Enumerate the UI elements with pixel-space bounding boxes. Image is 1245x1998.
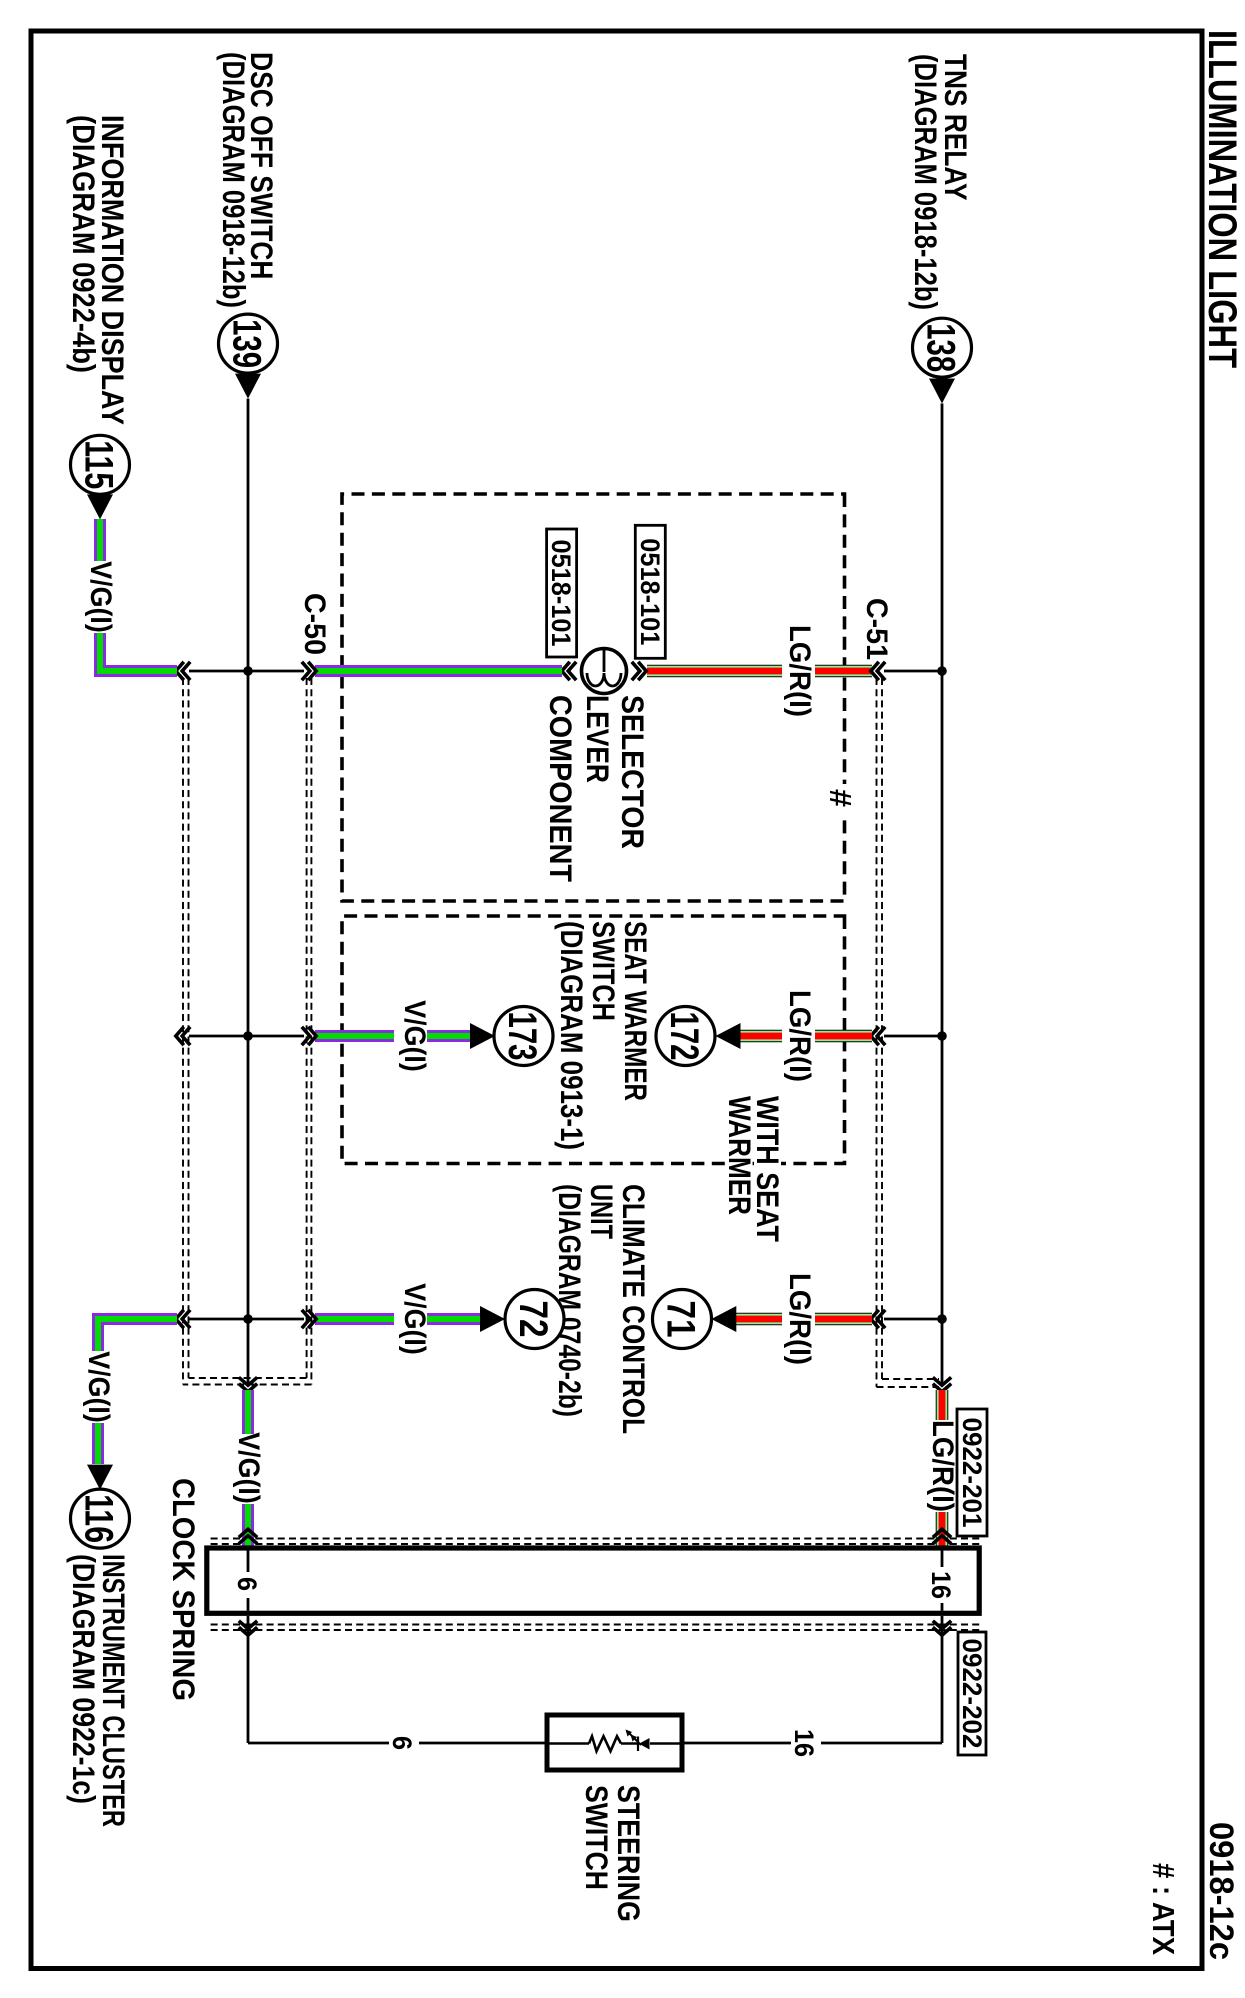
connector circle 173 seat warmer switch	[494, 1007, 553, 1066]
SEAT WARMER SWITCH label	[554, 921, 654, 1150]
connector circle 172 seat warmer switch	[656, 1007, 715, 1066]
chevron lower dashed line selector wire	[176, 662, 190, 680]
svg-text:CLIMATE CONTROL: CLIMATE CONTROL	[616, 1184, 652, 1434]
SELECTOR LEVER COMPONENT label	[543, 695, 651, 882]
svg-text:ILLUMINATION LIGHT: ILLUMINATION LIGHT	[1200, 30, 1244, 368]
label box 0922-201	[957, 1409, 987, 1536]
svg-text:173: 173	[500, 1012, 544, 1061]
C-51 in-line connector dashed line (outer)	[877, 678, 940, 1387]
svg-text:115: 115	[77, 440, 121, 489]
svg-text:SEAT WARMER: SEAT WARMER	[618, 921, 654, 1101]
chevron C-50 climate wire	[302, 1310, 316, 1328]
svg-text:V/G(I): V/G(I)	[82, 1351, 115, 1423]
connector C-50 chevron	[302, 662, 316, 680]
svg-text:V/G(I): V/G(I)	[398, 1000, 431, 1072]
node TNS bus / climate branch	[937, 1314, 947, 1324]
pin number 6 clock spring	[232, 1572, 265, 1598]
wire V/G(I) bulb to C-50	[315, 665, 562, 677]
connector circle 116 instrument cluster	[71, 1489, 130, 1548]
INFORMATION DISPLAY label	[66, 115, 131, 425]
chevron upper dashed line climate wire	[871, 1310, 885, 1328]
svg-text:(DIAGRAM 0913-1): (DIAGRAM 0913-1)	[554, 921, 590, 1150]
svg-text:CLOCK SPRING: CLOCK SPRING	[166, 1478, 202, 1701]
wire V/G(I) to information display	[100, 633, 177, 671]
svg-text:C-51: C-51	[860, 598, 893, 660]
INSTRUMENT CLUSTER label	[66, 1554, 132, 1827]
node DSC bus / climate wire	[243, 1314, 253, 1324]
svg-text:6: 6	[232, 1577, 262, 1591]
STEERING SWITCH label	[579, 1785, 647, 1922]
wire stub TNS bus to seat warmer chevron	[884, 1035, 942, 1038]
svg-text:LEVER: LEVER	[580, 695, 616, 783]
label C-50	[298, 593, 331, 655]
svg-text:0518-101: 0518-101	[546, 540, 576, 647]
svg-text:C-50: C-50	[298, 593, 331, 655]
node DSC bus / selector wire	[243, 666, 253, 676]
pin label 16 steering	[789, 1727, 821, 1759]
wire thin seat warmer across connector region	[189, 1035, 304, 1038]
C-50 in-line connector dashed line (bottom outer)	[182, 678, 184, 1385]
label box 0518-101 lower	[546, 529, 577, 657]
node TNS bus / selector branch	[937, 666, 947, 676]
chevron lower dashed line seat warmer wire	[176, 1027, 190, 1045]
wire through clock spring pin 6	[247, 1551, 250, 1611]
svg-text:0922-201: 0922-201	[957, 1418, 987, 1528]
selector lever component dashed box	[342, 494, 845, 901]
arrow into wire from 115	[87, 494, 113, 519]
WITH SEAT WARMER label	[722, 1094, 786, 1244]
steering switch box	[547, 1715, 682, 1770]
svg-text:WARMER: WARMER	[722, 1096, 758, 1215]
wire LG/R(I) to clock spring pin 16	[936, 1390, 949, 1546]
chevron 0922-202 pin 6	[239, 1621, 257, 1635]
svg-text:LG/R(I): LG/R(I)	[783, 625, 816, 717]
arrow into 71	[711, 1306, 736, 1332]
svg-text:(DIAGRAM 0918-12b): (DIAGRAM 0918-12b)	[216, 52, 252, 308]
svg-text:138: 138	[919, 323, 963, 372]
wire TNS bus y=303	[941, 404, 944, 1385]
chevron lower dashed line climate wire	[176, 1310, 190, 1328]
C-50 in-line connector dashed line (bottom inner)	[188, 678, 190, 1378]
CLIMATE CONTROL UNIT label	[552, 1184, 652, 1434]
connector 0922-201 dashed lines	[207, 1539, 979, 1545]
connector circle 138 TNS relay	[913, 318, 972, 377]
TNS RELAY label	[908, 54, 974, 310]
svg-text:116: 116	[77, 1494, 121, 1543]
label box 0922-202	[957, 1632, 987, 1755]
svg-text:# : ATX: # : ATX	[1146, 1863, 1181, 1955]
ATX note marker # on selector box edge	[823, 784, 858, 814]
arrow from 173 into wire	[470, 1023, 495, 1049]
connector 0922-202 dashed lines	[207, 1625, 979, 1631]
chevron C-50 seat warmer wire	[302, 1027, 316, 1045]
svg-text:71: 71	[659, 1301, 703, 1338]
wire V/G(I) to instrument cluster	[98, 1319, 177, 1464]
clock spring box	[207, 1548, 979, 1613]
svg-text:(DIAGRAM 0922-4b): (DIAGRAM 0922-4b)	[66, 115, 102, 373]
wire clock spring pin6 to steering switch	[248, 1616, 547, 1743]
svg-text:SWITCH: SWITCH	[586, 921, 622, 1021]
wire label LG/R(I) seat warmer	[782, 990, 816, 1082]
wire V/G(I) climate branch	[315, 1313, 480, 1325]
connector circle 71 climate control	[653, 1290, 712, 1349]
wire LG/R(I) climate branch	[735, 1313, 872, 1326]
resistor of steering switch	[589, 1736, 621, 1751]
svg-text:LG/R(I): LG/R(I)	[783, 1273, 816, 1365]
svg-text:LG/R(I): LG/R(I)	[926, 1420, 959, 1512]
wire V/G(I) seat warmer branch	[315, 1030, 470, 1042]
pin label 6 steering	[387, 1730, 419, 1756]
node DSC bus / seat warmer wire	[243, 1031, 253, 1041]
wire label V/G(I) instrument cluster	[82, 1351, 115, 1423]
svg-text:16: 16	[789, 1729, 819, 1757]
CLOCK SPRING label	[166, 1478, 202, 1701]
DSC OFF SWITCH label	[216, 52, 280, 308]
wire stub TNS bus to climate chevron	[884, 1318, 942, 1321]
arrow from 139	[235, 374, 261, 399]
svg-text:139: 139	[225, 319, 269, 368]
wire label LG/R(I) clock spring	[926, 1420, 959, 1512]
LED of steering switch	[626, 1730, 650, 1752]
label C-51	[860, 598, 893, 660]
svg-text:SELECTOR: SELECTOR	[615, 695, 651, 849]
arrow into 172	[716, 1023, 741, 1049]
svg-text:0922-202: 0922-202	[957, 1639, 987, 1749]
wire label LG/R(I) climate	[782, 1273, 816, 1365]
seat warmer switch dashed box	[342, 916, 845, 1164]
svg-text:72: 72	[511, 1301, 555, 1338]
label box 0518-101 upper	[635, 525, 665, 658]
svg-text:(DIAGRAM 0918-12b): (DIAGRAM 0918-12b)	[908, 54, 944, 310]
wire label V/G(I) information display	[84, 561, 117, 633]
svg-text:LG/R(I): LG/R(I)	[783, 990, 816, 1082]
chevron 0922-201 pin 6	[239, 1529, 257, 1543]
wire stub TNS bus to C-51	[884, 670, 942, 673]
svg-text:UNIT: UNIT	[584, 1184, 620, 1239]
diagram number 0918-12c	[1202, 1822, 1240, 1960]
connector 0518-101 chevron below bulb	[562, 662, 576, 680]
chevron DSC bus exit at dashed loop	[239, 1377, 257, 1391]
C-51 in-line connector dashed line (inner)	[882, 678, 939, 1379]
wire label V/G(I) climate	[394, 1283, 431, 1355]
pin number 16 clock spring	[926, 1567, 959, 1603]
connector C-51 chevron	[871, 662, 885, 680]
wire LG/R(I) seat warmer branch	[740, 1030, 872, 1043]
svg-text:0918-12c: 0918-12c	[1202, 1822, 1240, 1960]
wire V/G(I) into circle 115	[94, 519, 106, 561]
wire DSC bus y=997	[247, 399, 250, 1385]
chevron 0922-201 pin 16	[933, 1529, 951, 1543]
svg-text:SWITCH: SWITCH	[579, 1785, 615, 1890]
wire inside steering switch	[547, 1742, 682, 1744]
wire thin across C-50 connector region	[189, 670, 304, 673]
arrow from 138	[929, 379, 955, 404]
C-50 in-line connector dashed line (top inner)	[189, 678, 307, 1378]
svg-text:V/G(I): V/G(I)	[232, 1432, 265, 1504]
svg-text:6: 6	[387, 1736, 417, 1750]
connector circle 139 DSC off switch	[219, 314, 278, 373]
wire LG/R(I) selector branch	[647, 665, 872, 678]
chevron 0922-202 pin 16	[933, 1621, 951, 1635]
svg-text:STEERING: STEERING	[611, 1785, 647, 1922]
connector 0518-101 chevron above bulb	[632, 662, 646, 680]
title ILLUMINATION LIGHT	[1200, 30, 1244, 368]
chevron TNS bus exit at dashed loop	[933, 1377, 951, 1391]
illumination bulb of selector lever	[582, 649, 627, 694]
C-50 in-line connector dashed line (top outer)	[183, 678, 311, 1385]
wire through clock spring pin 16	[941, 1551, 944, 1611]
wire label LG/R(I) selector	[782, 625, 816, 717]
svg-text:16: 16	[926, 1571, 956, 1599]
svg-text:V/G(I): V/G(I)	[398, 1283, 431, 1355]
svg-text:0518-101: 0518-101	[635, 538, 665, 645]
connector circle 72 climate control	[505, 1290, 564, 1349]
svg-text:V/G(I): V/G(I)	[84, 561, 117, 633]
svg-text:(DIAGRAM 0922-1c): (DIAGRAM 0922-1c)	[66, 1554, 102, 1804]
wire V/G(I) to clock spring pin 6	[242, 1390, 254, 1546]
wire label V/G(I) seat warmer	[394, 1000, 431, 1072]
svg-text:#: #	[823, 789, 858, 807]
connector circle 115 information display	[71, 435, 130, 494]
svg-text:COMPONENT: COMPONENT	[543, 695, 579, 882]
chevron upper dashed line seat warmer	[871, 1027, 885, 1045]
wire label V/G(I) clock spring	[232, 1432, 265, 1504]
wire clock spring pin16 to steering switch	[682, 1616, 942, 1743]
wire thin climate across connector region	[189, 1318, 304, 1321]
svg-text:172: 172	[662, 1012, 706, 1061]
note # : ATX	[1146, 1863, 1181, 1955]
arrow from 72 into wire	[480, 1306, 505, 1332]
node TNS bus / seat warmer branch	[937, 1031, 947, 1041]
arrow into 116	[87, 1465, 113, 1490]
